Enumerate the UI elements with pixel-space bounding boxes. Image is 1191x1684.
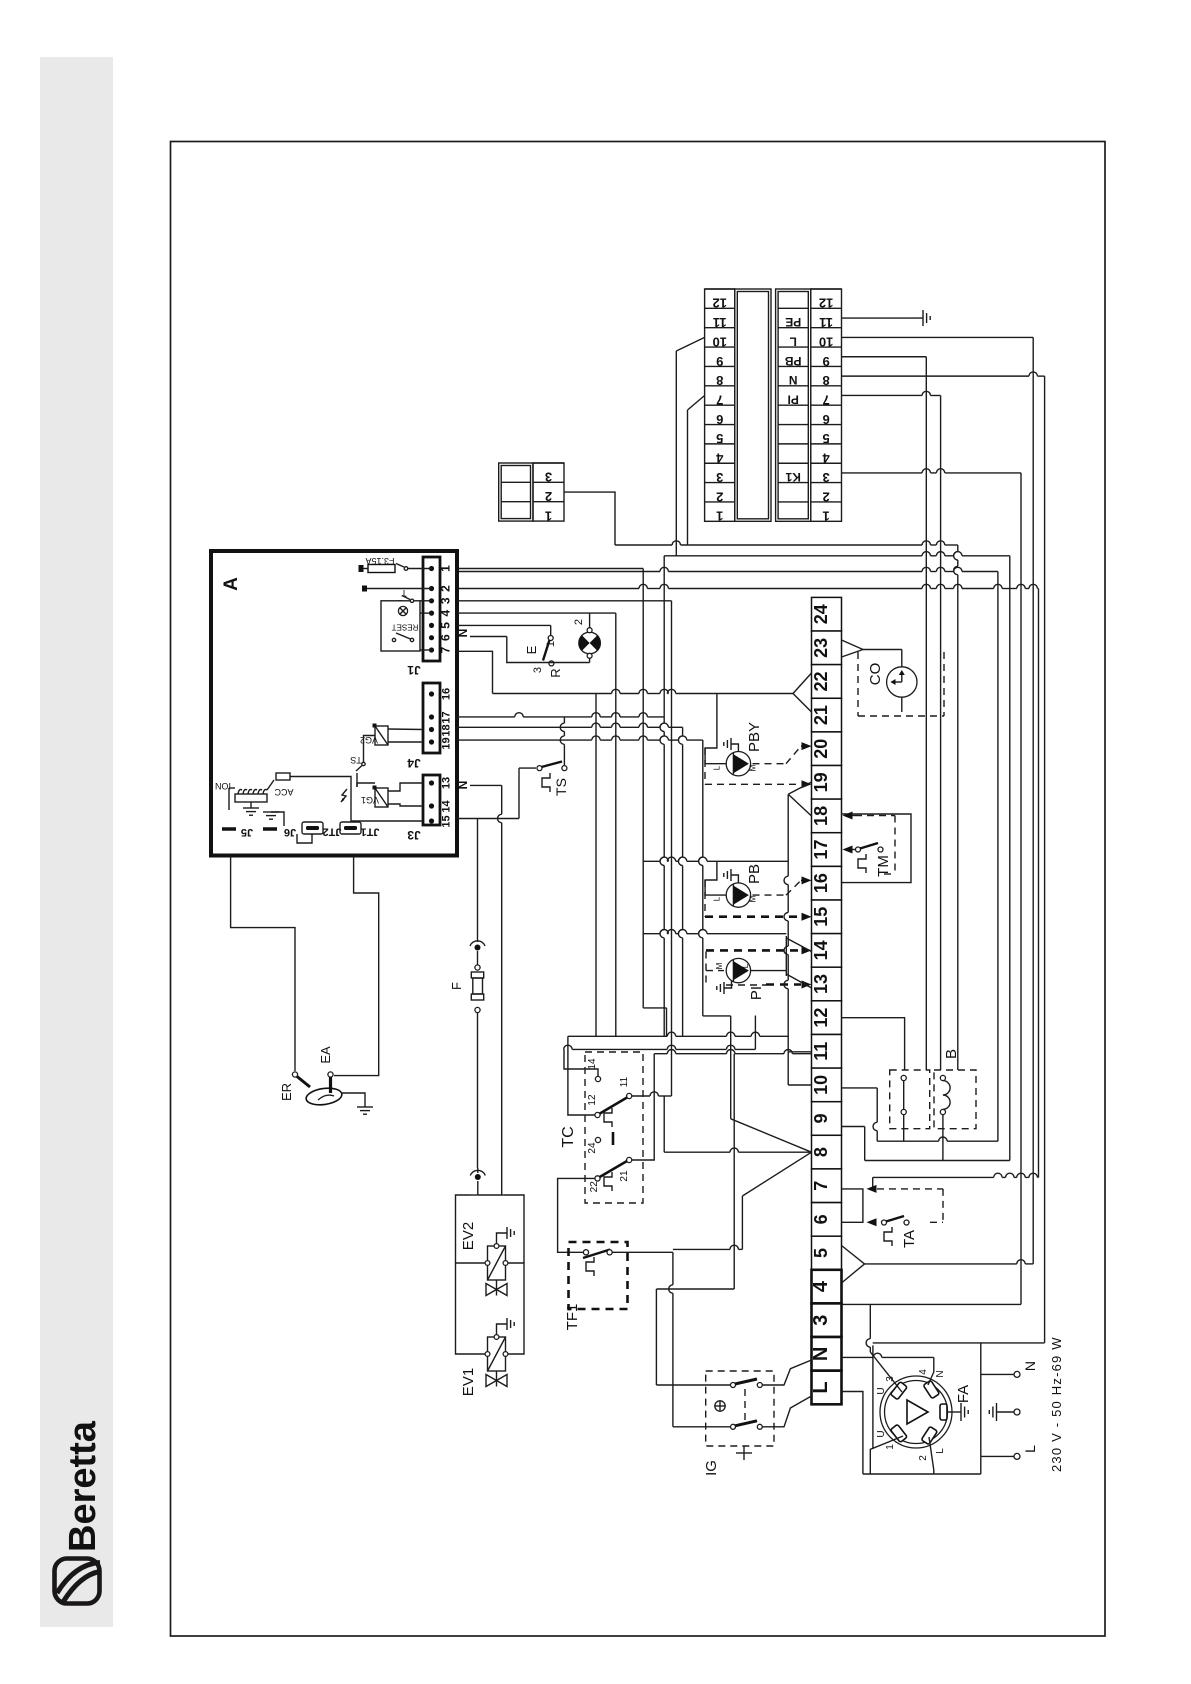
solenoid valve EV1 — [485, 1335, 508, 1387]
corridor vertical x788 — [784, 794, 788, 1052]
PBY arrow to terminal 20 — [801, 742, 812, 750]
ground at PB — [724, 869, 739, 883]
jumper JT2 — [302, 822, 341, 838]
svg-text:RESET: RESET — [392, 623, 419, 632]
label N mains — [1022, 1361, 1038, 1371]
TC switch 2 — [595, 1132, 632, 1191]
wire terminal N to FA pin4 — [842, 1353, 934, 1385]
TM arrow to terminal 17 — [843, 846, 856, 854]
TM arrow to terminal 18 — [843, 812, 856, 820]
svg-text:21: 21 — [811, 705, 831, 725]
svg-text:IG: IG — [703, 1460, 720, 1476]
label VG1 — [361, 795, 379, 805]
wire CN-B N net — [842, 372, 1045, 376]
wire J3 pin15 net to fuse F — [457, 819, 519, 943]
gray sidebar — [40, 57, 113, 1627]
burner flame symbol — [305, 1086, 343, 1107]
FA earth pin ground — [947, 1403, 968, 1421]
FA pin earth — [940, 1404, 947, 1420]
PBY dashed box — [705, 746, 801, 784]
label PB — [746, 864, 763, 884]
PI arrow to terminal 14 — [802, 946, 812, 954]
PB enclosure wire — [643, 857, 788, 861]
ignition electrode EA — [328, 1072, 333, 1093]
relay B coil — [901, 1075, 950, 1114]
label L at PB — [713, 896, 722, 901]
PI feed wire — [751, 970, 787, 972]
svg-text:22: 22 — [589, 1181, 600, 1193]
svg-text:N: N — [1022, 1361, 1038, 1371]
svg-text:2: 2 — [573, 619, 585, 625]
svg-text:N: N — [456, 781, 470, 790]
wire board aux net to relay B — [457, 567, 998, 1141]
connector J4 — [423, 683, 440, 753]
TA dashed box — [877, 1189, 943, 1222]
connector strip CN-A housing column — [735, 289, 771, 521]
svg-text:J3: J3 — [407, 828, 421, 842]
svg-text:16: 16 — [441, 688, 453, 700]
faston connector on EV feed — [470, 1168, 485, 1195]
terminals 21-22 fork — [793, 673, 812, 712]
mains earth symbol and terminal — [989, 1403, 1020, 1421]
spark symbol — [341, 789, 347, 802]
wire N from J1 pin6 to selector and lamp — [470, 637, 590, 663]
wire lamp bottom to N line — [589, 658, 591, 662]
solenoid valve EV2 — [485, 1244, 508, 1296]
ground at EV2 — [497, 1227, 515, 1244]
reset block on board — [381, 601, 432, 651]
wire IG pole2 to terminal L — [762, 1396, 811, 1427]
FA pin U3 — [890, 1382, 907, 1400]
wire FA pin U1 to L output — [863, 1436, 1014, 1474]
svg-text:M: M — [749, 895, 758, 902]
svg-text:L: L — [741, 963, 750, 968]
pump PBY — [726, 752, 750, 776]
svg-text:E: E — [524, 645, 539, 654]
svg-text:11: 11 — [811, 1042, 831, 1061]
label E — [524, 645, 539, 654]
wire 13-14 net to corridor — [643, 930, 786, 934]
wire terminal L to FA loop — [842, 1392, 863, 1475]
wire TF1 to IG lower — [612, 1252, 730, 1427]
3-pin connector numbers — [533, 463, 564, 523]
wire J1 pin2 stub on board — [362, 586, 432, 592]
wire J1 pin19 net — [457, 736, 703, 740]
svg-text:16: 16 — [811, 873, 831, 893]
svg-text:17: 17 — [811, 840, 831, 860]
ground at PI — [717, 981, 732, 995]
label ER — [279, 1083, 294, 1101]
svg-text:PB: PB — [785, 354, 802, 368]
label PI — [748, 986, 765, 1000]
label EV1 — [460, 1368, 477, 1396]
ground under ION — [243, 802, 259, 815]
diagram border frame — [171, 142, 1106, 1637]
svg-text:24: 24 — [587, 1142, 598, 1154]
wire N net to mains N terminal — [873, 1343, 1045, 1375]
TC contact labels 24 22 21 — [587, 1142, 630, 1192]
ground at PBY — [724, 738, 739, 752]
connector J1 — [423, 557, 440, 661]
wire TC 11 net — [632, 1092, 672, 1096]
J3 pin numbers — [441, 777, 453, 828]
svg-text:K1: K1 — [785, 470, 801, 484]
wire TC 12 riser — [568, 1036, 595, 1115]
FA pin 2L — [921, 1426, 937, 1444]
TC dashed box — [585, 1052, 643, 1203]
PBY arrow to terminal 19 — [802, 780, 812, 788]
svg-text:13: 13 — [811, 974, 831, 994]
wire TS to pin15 line — [519, 768, 536, 818]
label PBY — [746, 722, 763, 752]
svg-text:18: 18 — [441, 724, 453, 736]
svg-text:1: 1 — [545, 508, 552, 523]
svg-text:L: L — [1022, 1445, 1038, 1453]
svg-text:TC: TC — [560, 1126, 577, 1147]
svg-text:M: M — [715, 962, 724, 969]
flue thermostat TF1 switch — [583, 1250, 612, 1277]
svg-text:R: R — [548, 668, 563, 677]
wire J1 pin2 net — [457, 584, 1039, 1177]
programmer clock CO — [887, 650, 917, 713]
label TA — [901, 1230, 918, 1248]
jumper JT1 — [340, 822, 379, 838]
terminals 6-7 bracket — [842, 1189, 863, 1222]
svg-text:3: 3 — [439, 597, 453, 604]
wire J3 pin13 N net to EV — [470, 785, 502, 1195]
terminal strip M (L,N,3..24) — [810, 597, 842, 1404]
svg-text:J1: J1 — [407, 663, 421, 677]
svg-text:U: U — [876, 1387, 887, 1394]
wire ACC to J3 pin15 — [290, 777, 423, 822]
wire TC 21 net to terminal 11 — [632, 1050, 812, 1161]
svg-text:1: 1 — [439, 565, 453, 572]
svg-text:3: 3 — [532, 667, 544, 673]
svg-text:18: 18 — [811, 806, 831, 826]
svg-text:21: 21 — [619, 1170, 630, 1182]
svg-text:L: L — [713, 896, 722, 901]
room thermostat TA switch — [882, 1216, 910, 1246]
label 2 at lamp — [573, 619, 585, 625]
wire PB net vertical — [925, 357, 927, 1070]
wire CN-A row10 to corridor — [676, 337, 704, 555]
svg-text:1: 1 — [823, 509, 830, 524]
IG linkage dashes — [744, 1389, 746, 1423]
wire terminal 3 branch to FA plug — [866, 1304, 870, 1352]
fuse F — [471, 951, 483, 1168]
svg-text:ER: ER — [279, 1083, 294, 1101]
terminal 23 fork to clock — [842, 640, 902, 657]
label TS — [553, 778, 569, 796]
wire PI net vertical — [940, 395, 942, 1070]
indicator lamp — [579, 628, 601, 659]
TA arrow to terminal 6 wire — [867, 1218, 877, 1226]
relay B dashed box — [890, 1070, 976, 1129]
svg-text:2: 2 — [439, 585, 453, 592]
svg-text:2: 2 — [918, 1455, 929, 1461]
svg-text:PE: PE — [785, 315, 801, 329]
label TC — [560, 1126, 577, 1147]
svg-text:19: 19 — [811, 772, 831, 792]
label F3.15A — [365, 556, 394, 566]
rating text 230V 50Hz — [1049, 1336, 1064, 1472]
wire TC 22 to TF1 — [558, 1178, 595, 1252]
svg-text:CO: CO — [867, 663, 884, 686]
svg-text:JT2: JT2 — [323, 826, 342, 838]
wire aux net via corridor — [664, 552, 1010, 1161]
svg-text:PI: PI — [748, 986, 765, 1000]
relay B terminal stubs — [904, 1115, 943, 1161]
ground near J6 — [263, 812, 284, 826]
label L at PI — [741, 963, 750, 968]
PI arrow to terminal 13 — [802, 981, 812, 989]
svg-text:Beretta: Beretta — [62, 1420, 104, 1552]
terminals 18-19 fork — [788, 782, 811, 816]
svg-text:VG1: VG1 — [361, 795, 379, 805]
svg-text:TS: TS — [350, 755, 362, 765]
wire J1 pin1 net staircase — [457, 569, 667, 1037]
TF1 dashed box — [569, 1242, 628, 1309]
wire TC 14 net — [564, 1016, 756, 1077]
svg-text:17: 17 — [441, 711, 453, 723]
connector J3 — [423, 775, 440, 825]
corridor vertical x702 — [699, 740, 703, 1016]
terminals 13-14 bracket — [786, 936, 811, 988]
svg-text:A: A — [221, 577, 242, 591]
wire 3-pin connector pin2 net — [564, 492, 958, 545]
wire 3-pin net vertical — [954, 545, 958, 1070]
wire J1 pin4 net with lamp tap — [457, 613, 616, 1036]
label N at J3 pin13 — [456, 781, 470, 790]
PB dashed box — [705, 880, 801, 917]
svg-text:TF1: TF1 — [564, 1304, 581, 1331]
wire K1 net vertical — [1020, 473, 1022, 1304]
wire CN-B L net — [842, 336, 1034, 338]
IG pole 2 — [731, 1421, 763, 1430]
svg-text:PI: PI — [788, 392, 799, 406]
safety thermostat TS — [537, 762, 567, 793]
svg-text:12: 12 — [811, 1008, 831, 1028]
EV parallel loop wire — [456, 1195, 525, 1354]
label J3 — [407, 828, 421, 842]
connector strip CN-B housing column with labels — [776, 289, 811, 521]
wire CN-A row7 to corridor — [688, 395, 705, 545]
label M at PBY — [749, 764, 758, 771]
mains L terminal — [1014, 1453, 1020, 1459]
terminal 18 wire loop via TM zone — [842, 814, 912, 883]
svg-text:24: 24 — [811, 604, 831, 624]
fuse F3.15A on board — [359, 564, 432, 573]
svg-text:20: 20 — [811, 739, 831, 759]
wire L net vertical — [1032, 337, 1034, 1264]
label EV2 — [460, 1222, 477, 1250]
selector switch E-R — [543, 636, 554, 666]
svg-text:ACC: ACC — [274, 787, 294, 797]
ionisation electrode ION on board — [215, 781, 267, 810]
svg-text:TS: TS — [553, 778, 569, 796]
TC switch 1 — [595, 1076, 632, 1127]
svg-text:12: 12 — [587, 1094, 598, 1106]
svg-text:VG2: VG2 — [360, 735, 378, 745]
test point J5 — [222, 826, 253, 838]
wire J1 pin3 net — [457, 600, 672, 602]
thermostat TM switch — [856, 843, 884, 873]
label R — [548, 668, 563, 677]
svg-text:4: 4 — [918, 1369, 929, 1375]
label N at J1 pin6 — [456, 629, 470, 638]
label EA — [318, 1046, 333, 1064]
test point J6 — [263, 826, 296, 838]
svg-text:J4: J4 — [407, 756, 421, 770]
lamp on reset block — [398, 606, 407, 615]
wire JT2 loop — [297, 834, 312, 843]
reset switch — [392, 623, 419, 642]
corridor vertical x730 — [703, 1016, 731, 1119]
J4 pin numbers — [441, 688, 453, 750]
svg-text:8: 8 — [811, 1147, 831, 1157]
svg-text:L: L — [810, 1381, 832, 1393]
mains filter plug FA — [880, 1376, 952, 1448]
IG neon lamp — [715, 1401, 725, 1411]
wire J1 pin7 net to terminals 21-22 — [457, 651, 793, 693]
svg-text:3: 3 — [810, 1315, 832, 1326]
svg-text:230 V - 50 Hz-69 W: 230 V - 50 Hz-69 W — [1049, 1336, 1064, 1472]
label IG — [703, 1460, 720, 1476]
wire J1 pin17 net to TS — [457, 713, 664, 1037]
wire board A to ignition electrode EA — [334, 856, 379, 1076]
svg-text:7: 7 — [811, 1181, 831, 1191]
wire L net to terminals 4-5 fork — [842, 1246, 1034, 1284]
FA pin U1 — [890, 1424, 907, 1442]
wire EV top edge — [471, 1194, 503, 1196]
svg-text:N: N — [789, 373, 798, 387]
wire FA pin U3 diagonal — [870, 1352, 902, 1392]
terminal 8 fork — [664, 1096, 811, 1196]
control board A outline — [211, 551, 457, 856]
svg-text:1: 1 — [716, 509, 723, 524]
svg-text:L: L — [790, 334, 797, 348]
svg-text:7: 7 — [439, 646, 453, 653]
mains N terminal — [1014, 1371, 1020, 1377]
label M at PB — [749, 895, 758, 902]
label 1 — [545, 641, 557, 647]
connector strip CN-A numbers column — [705, 289, 735, 524]
PB arrow to terminal 15 — [802, 913, 812, 921]
terminal 12 wire to relay B — [842, 1018, 905, 1070]
svg-text:14: 14 — [587, 1058, 598, 1070]
connector strip CN-B numbers column — [811, 289, 842, 524]
IG actuator mark — [736, 1446, 752, 1460]
svg-text:L: L — [935, 1448, 946, 1454]
ground at EV1 — [497, 1318, 515, 1335]
main switch IG dashed box — [706, 1371, 774, 1446]
svg-text:15: 15 — [811, 907, 831, 927]
svg-text:EA: EA — [318, 1046, 333, 1064]
FA enclosure wire left edge — [872, 1345, 874, 1449]
svg-text:6: 6 — [439, 634, 453, 641]
CO dashed box — [858, 652, 944, 716]
wire CN-B PI net — [842, 391, 941, 395]
FA enclosure wire right edge — [980, 1374, 982, 1456]
svg-text:FA: FA — [955, 1385, 972, 1403]
label M at PI — [715, 962, 724, 969]
TM dashed box — [855, 816, 895, 875]
svg-text:N: N — [935, 1370, 946, 1377]
FA pin 4N — [923, 1380, 939, 1398]
svg-text:N: N — [810, 1347, 832, 1361]
label F — [449, 982, 464, 990]
label B — [943, 1049, 960, 1059]
svg-text:5: 5 — [811, 1248, 831, 1258]
PI dashed box — [706, 950, 801, 985]
PBY feed wire — [705, 694, 726, 764]
svg-text:T: T — [401, 588, 407, 598]
label J4 — [407, 756, 421, 770]
wires VG1 to J3 — [388, 783, 423, 806]
svg-text:EV1: EV1 — [460, 1368, 477, 1396]
svg-text:19: 19 — [441, 737, 453, 749]
svg-text:JT1: JT1 — [361, 826, 380, 838]
wire TC 11 riser — [671, 601, 673, 1096]
Beretta logo icon — [55, 1559, 101, 1604]
svg-text:PBY: PBY — [746, 722, 763, 752]
corridor vertical x742 — [673, 1196, 743, 1249]
wire CN-B PB net — [842, 356, 927, 358]
svg-text:L: L — [713, 765, 722, 770]
pump PI — [726, 958, 750, 982]
label TF1 — [564, 1304, 581, 1331]
wire J1 pin5 to selector — [457, 625, 551, 635]
FA pin labels — [876, 1369, 946, 1461]
svg-text:10: 10 — [811, 1075, 831, 1095]
wire board A to flame electrode ER — [231, 856, 295, 1072]
label CO — [867, 663, 884, 686]
terminals 10-11 bracket — [788, 1052, 811, 1085]
wire K1 net to terminal 3 — [842, 1303, 1022, 1305]
igniter ACC — [267, 773, 294, 797]
TA arrow to terminal 7 wire — [867, 1185, 877, 1193]
svg-text:B: B — [943, 1049, 960, 1059]
flame detection electrode ER — [292, 1072, 310, 1087]
svg-text:PB: PB — [746, 864, 763, 884]
gas valve coil VG1 — [357, 783, 388, 807]
J1 pin numbers — [439, 565, 453, 654]
svg-text:13: 13 — [441, 777, 453, 789]
label TM — [875, 855, 892, 877]
TC contact labels 14 12 11 — [587, 1058, 630, 1106]
svg-text:F3.15A: F3.15A — [365, 556, 394, 566]
wire aux vertical x664 — [663, 556, 665, 717]
svg-text:5: 5 — [439, 622, 453, 629]
svg-text:EV2: EV2 — [460, 1222, 477, 1250]
svg-text:9: 9 — [811, 1114, 831, 1124]
svg-text:M: M — [749, 764, 758, 771]
wire IG upper riser — [656, 1054, 734, 1385]
IG pole 1 — [731, 1379, 763, 1388]
label VG2 — [360, 735, 378, 745]
terminal 9 wire to B outer loop — [842, 1127, 1010, 1161]
wire pin2 net to TA — [873, 1173, 1039, 1189]
gas valve coil VG2 — [373, 724, 424, 746]
svg-text:J6: J6 — [284, 826, 296, 838]
svg-text:1: 1 — [885, 1444, 896, 1450]
board label A — [221, 577, 242, 591]
label L mains — [1022, 1445, 1038, 1453]
svg-text:F: F — [449, 982, 464, 990]
corridor vertical x596 — [595, 694, 597, 1037]
wire CN-B K1 net — [842, 469, 1022, 473]
PB feed wire — [705, 861, 726, 895]
